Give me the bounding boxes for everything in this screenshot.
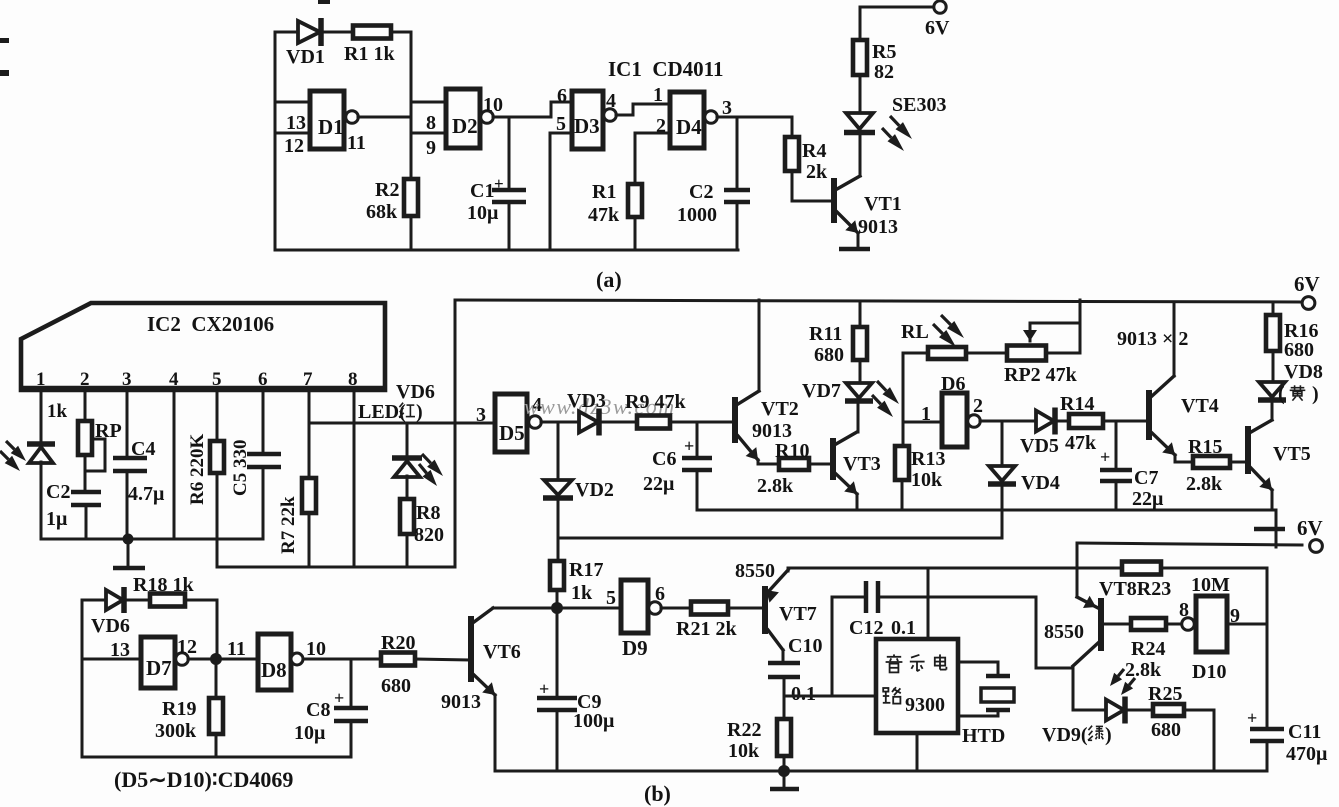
resistor R23 10M bbox=[1122, 562, 1161, 575]
capacitor C5 330 bbox=[247, 452, 281, 457]
svg-text:VD1: VD1 bbox=[286, 46, 325, 68]
svg-text:1: 1 bbox=[653, 84, 663, 106]
svg-text:300k: 300k bbox=[155, 720, 197, 742]
svg-text:R13: R13 bbox=[911, 448, 945, 470]
wire: R17 to node bbox=[557, 538, 560, 561]
svg-text:3: 3 bbox=[122, 369, 132, 390]
wire: D7 block left loop bbox=[81, 600, 84, 757]
resistor R19 300k bbox=[215, 665, 218, 698]
transistor VT7 8550 bbox=[762, 586, 768, 634]
svg-text:0.1: 0.1 bbox=[891, 617, 916, 639]
resistor R14 47k bbox=[1069, 414, 1103, 428]
svg-text:C5 330: C5 330 bbox=[230, 440, 251, 496]
wire: oscillator bottom rail bbox=[82, 756, 351, 759]
svg-text:(: ( bbox=[1278, 383, 1285, 405]
capacitor C2 1000 bbox=[736, 117, 739, 188]
wire: +6V rail2 under IC2 bbox=[217, 566, 455, 569]
wire: 6V line (VT8) bbox=[1077, 543, 1302, 545]
ground (bottom) bbox=[783, 771, 786, 788]
svg-text:IC2 CX20106: IC2 CX20106 bbox=[147, 312, 274, 336]
wire: emitter rail (section b) bbox=[697, 509, 1276, 512]
svg-text:5: 5 bbox=[212, 369, 222, 390]
svg-text:D5: D5 bbox=[499, 421, 525, 445]
svg-text:10k: 10k bbox=[911, 469, 943, 491]
svg-text:(a): (a) bbox=[596, 267, 622, 292]
diode VD6b bbox=[106, 590, 123, 610]
svg-text:820: 820 bbox=[414, 524, 444, 546]
resistor R2 68k bbox=[404, 179, 418, 216]
svg-text:1k: 1k bbox=[571, 582, 593, 604]
svg-text:47k: 47k bbox=[588, 204, 620, 226]
svg-text:10M: 10M bbox=[1191, 574, 1230, 596]
diode VD3 bbox=[579, 412, 598, 433]
wire: D3 pin5 feedback bbox=[550, 132, 572, 135]
power terminal 6V (section a) bbox=[859, 7, 862, 40]
gate D9 bbox=[563, 607, 621, 610]
power terminal 6V (right, emitter rail) bbox=[1275, 510, 1278, 547]
wire: C10 bottom node bbox=[784, 695, 876, 698]
svg-text:RL: RL bbox=[901, 321, 929, 343]
wire: C12 to VT8 collector bbox=[1035, 597, 1038, 668]
transistor VT2 9013 bbox=[732, 397, 738, 443]
capacitor C1 10u bbox=[508, 118, 511, 188]
svg-text:): ) bbox=[1105, 724, 1112, 746]
svg-text:C2: C2 bbox=[46, 481, 70, 503]
svg-text:680: 680 bbox=[1284, 339, 1314, 361]
svg-text:D9: D9 bbox=[622, 636, 648, 660]
piezo buzzer HTD bbox=[958, 661, 998, 664]
svg-text:9: 9 bbox=[426, 137, 436, 159]
svg-text:12: 12 bbox=[284, 135, 304, 157]
svg-text:R6 220K: R6 220K bbox=[187, 434, 208, 505]
svg-text:+: + bbox=[1100, 447, 1110, 467]
svg-text:): ) bbox=[1312, 383, 1319, 405]
transistor VT4 bbox=[1146, 390, 1152, 440]
svg-text:13: 13 bbox=[286, 112, 306, 134]
svg-text:RP: RP bbox=[95, 420, 122, 442]
svg-text:9013: 9013 bbox=[858, 216, 898, 238]
svg-text:VT1: VT1 bbox=[864, 193, 902, 215]
potentiometer RP bbox=[78, 421, 92, 455]
svg-text:R17: R17 bbox=[569, 559, 603, 581]
svg-text:+: + bbox=[334, 688, 344, 708]
wire: D1 output bbox=[358, 116, 411, 119]
capacitor C6 22u bbox=[696, 422, 699, 456]
transistor VT5 bbox=[1245, 426, 1251, 474]
svg-text:22μ: 22μ bbox=[643, 473, 675, 495]
resistor R18 1k bbox=[150, 594, 185, 607]
svg-text:5: 5 bbox=[606, 587, 616, 609]
svg-text:C6: C6 bbox=[652, 448, 676, 470]
svg-text:10μ: 10μ bbox=[294, 722, 326, 744]
svg-text:VT5: VT5 bbox=[1273, 443, 1311, 465]
resistor R20 680 bbox=[381, 653, 415, 666]
svg-text:R11: R11 bbox=[809, 323, 842, 345]
wire: music box bottom pin bbox=[916, 733, 919, 771]
capacitor C9 100u bbox=[556, 614, 559, 696]
svg-text:D3: D3 bbox=[574, 114, 600, 138]
svg-text:2k: 2k bbox=[806, 161, 828, 183]
LED VD8 (yellow) bbox=[1259, 382, 1285, 397]
potentiometer RP2 47k bbox=[966, 352, 1007, 355]
resistor R21 2k bbox=[661, 607, 691, 610]
svg-text:1μ: 1μ bbox=[46, 508, 68, 530]
svg-text:2.8k: 2.8k bbox=[757, 475, 794, 497]
resistor R6 220K bbox=[210, 441, 224, 473]
svg-text:D4: D4 bbox=[676, 115, 702, 139]
wire: D3 output to D4 bbox=[616, 114, 633, 117]
svg-text:C10: C10 bbox=[788, 635, 822, 657]
wire: pin7 branch to D5 bbox=[309, 422, 492, 425]
power terminal 6V (top right) bbox=[1302, 297, 1315, 310]
svg-text:10: 10 bbox=[483, 94, 503, 116]
gate D7 bbox=[82, 658, 141, 661]
svg-text:(b): (b) bbox=[644, 781, 671, 806]
wire: right vertical of D1 loop bbox=[410, 32, 413, 179]
resistor R7 22k bbox=[302, 478, 316, 513]
svg-text:R21 2k: R21 2k bbox=[676, 618, 737, 640]
svg-text:6: 6 bbox=[557, 85, 567, 107]
capacitor C12 0.1 bbox=[831, 597, 834, 696]
svg-text:VD7: VD7 bbox=[802, 380, 841, 402]
svg-text:R4: R4 bbox=[802, 140, 826, 162]
svg-text:8550: 8550 bbox=[1044, 621, 1084, 643]
wire: RL left vertical bbox=[903, 352, 928, 355]
LED SE303 bbox=[859, 134, 862, 176]
svg-text:8: 8 bbox=[1179, 599, 1189, 621]
svg-text:13: 13 bbox=[110, 639, 130, 661]
svg-text:R1: R1 bbox=[592, 181, 616, 203]
svg-text:R10: R10 bbox=[775, 440, 809, 462]
wire: VT2 collector bbox=[758, 300, 761, 391]
svg-text:6V: 6V bbox=[1297, 516, 1323, 540]
svg-text:1000: 1000 bbox=[677, 204, 717, 226]
node (R17/C9/D9 junction) bbox=[551, 602, 563, 614]
svg-text:+: + bbox=[539, 679, 549, 699]
svg-text:3: 3 bbox=[476, 404, 486, 426]
IC IC2 CX20106 bbox=[21, 303, 385, 390]
svg-text:C1: C1 bbox=[470, 180, 494, 202]
gate D8 bbox=[222, 658, 258, 661]
resistor R9 47k bbox=[637, 416, 670, 429]
svg-text:4.7μ: 4.7μ bbox=[128, 483, 165, 505]
svg-text:SE303: SE303 bbox=[892, 94, 946, 116]
wire: bottom rail of section a bbox=[275, 249, 738, 252]
wire: D2 output to D3 bbox=[493, 116, 551, 119]
gate D2 bbox=[411, 101, 446, 104]
svg-text:6V: 6V bbox=[925, 17, 950, 39]
svg-text:RP2 47k: RP2 47k bbox=[1004, 364, 1078, 386]
wire: IC2 pin3 bbox=[126, 390, 129, 456]
svg-text:VD8: VD8 bbox=[1284, 361, 1323, 383]
svg-text:R8: R8 bbox=[416, 502, 440, 524]
svg-text:R20: R20 bbox=[381, 632, 415, 654]
svg-text:9013 × 2: 9013 × 2 bbox=[1117, 328, 1188, 350]
svg-text:(D5∼D10)∶CD4069: (D5∼D10)∶CD4069 bbox=[114, 767, 293, 792]
photodiode (pin1 receiver) bbox=[27, 441, 55, 447]
wire: VT6 collector to node bbox=[493, 607, 551, 610]
svg-text:100μ: 100μ bbox=[573, 710, 615, 732]
wire: IC2 pin2 bbox=[84, 390, 87, 420]
resistor R15 2.8k bbox=[1193, 456, 1230, 468]
wire: D8 output bbox=[303, 658, 381, 661]
svg-text:VT4: VT4 bbox=[1181, 395, 1219, 417]
svg-text:9300: 9300 bbox=[905, 694, 945, 716]
gate D10 bbox=[1182, 618, 1195, 631]
resistor R22 10k bbox=[783, 696, 786, 719]
svg-text:VD2: VD2 bbox=[575, 479, 614, 501]
svg-text:VD6: VD6 bbox=[91, 615, 130, 637]
svg-text:R2: R2 bbox=[375, 179, 399, 201]
diode VD1 bbox=[298, 21, 320, 43]
svg-text:10μ: 10μ bbox=[467, 202, 499, 224]
capacitor C10 0.1 bbox=[768, 661, 800, 666]
wire: D4 output bbox=[717, 116, 792, 119]
svg-text:+: + bbox=[494, 174, 504, 193]
resistor R16 680 bbox=[1272, 303, 1275, 315]
resistor R1 47k bbox=[628, 184, 642, 217]
capacitor C2 1u (pin2) bbox=[71, 490, 101, 495]
wire: IC2 pin8 bbox=[353, 390, 356, 567]
wire: IC2 pin4 bbox=[173, 390, 176, 539]
LED VD7 bbox=[846, 383, 872, 398]
IC music circuit 9300 bbox=[876, 639, 958, 733]
svg-text:VD3: VD3 bbox=[567, 390, 606, 412]
svg-text:C7: C7 bbox=[1134, 467, 1158, 489]
transistor VT1 9013 bbox=[831, 178, 837, 223]
svg-text:HTD: HTD bbox=[962, 725, 1005, 747]
svg-text:680: 680 bbox=[814, 344, 844, 366]
wire: ground rail under IC2 bbox=[41, 538, 263, 541]
svg-text:11: 11 bbox=[227, 638, 246, 660]
svg-text:D6: D6 bbox=[941, 373, 965, 395]
resistor R5 82 bbox=[853, 40, 867, 75]
svg-text:VD5: VD5 bbox=[1020, 435, 1059, 457]
svg-text:C8: C8 bbox=[306, 699, 330, 721]
ground (VT1 emitter) bbox=[839, 247, 870, 252]
resistor R11 680 bbox=[859, 302, 862, 327]
wire: section-b +6V top rail bbox=[455, 300, 1302, 302]
svg-text:VD4: VD4 bbox=[1021, 472, 1060, 494]
svg-text:R22: R22 bbox=[727, 719, 761, 741]
svg-text:R9 47k: R9 47k bbox=[625, 391, 686, 413]
svg-text:): ) bbox=[416, 401, 423, 423]
wire: section-b left vertical bbox=[454, 300, 457, 567]
node (pin3 ground junction) bbox=[123, 534, 134, 545]
wire: D4 pin2 to R1b bbox=[635, 132, 670, 135]
resistor R1 1k (top) bbox=[353, 26, 391, 39]
resistor R13 10k bbox=[895, 446, 909, 480]
svg-text:VT3: VT3 bbox=[843, 453, 881, 475]
resistor R24 2.8k bbox=[1104, 623, 1131, 626]
diode VD4 bbox=[1001, 421, 1004, 464]
transistor VT6 9013 bbox=[468, 616, 474, 682]
svg-text:+: + bbox=[684, 436, 694, 456]
svg-text:R5: R5 bbox=[872, 41, 896, 63]
svg-text:4: 4 bbox=[169, 369, 179, 390]
wire: D10 right vertical bbox=[1266, 568, 1269, 727]
svg-text:R7 22k: R7 22k bbox=[278, 496, 299, 554]
ground (IC2) bbox=[127, 539, 130, 567]
svg-text:82: 82 bbox=[874, 61, 894, 83]
svg-text:8550: 8550 bbox=[735, 560, 775, 582]
svg-text:C12: C12 bbox=[849, 617, 883, 639]
svg-text:D8: D8 bbox=[261, 658, 287, 682]
svg-text:10: 10 bbox=[306, 638, 326, 660]
svg-text:680: 680 bbox=[1151, 719, 1181, 741]
svg-text:680: 680 bbox=[381, 675, 411, 697]
svg-text:LED(: LED( bbox=[358, 401, 406, 423]
gate D5 bbox=[455, 422, 495, 425]
svg-text:D2: D2 bbox=[452, 114, 478, 138]
power terminal 6V (lower right) bbox=[1310, 540, 1323, 553]
wire: VD2 bottom rail to emitter rail bbox=[558, 537, 1002, 540]
svg-text:2: 2 bbox=[973, 395, 983, 417]
svg-text:D7: D7 bbox=[146, 656, 172, 680]
resistor R4 2k bbox=[791, 117, 794, 137]
wire: IC2 pin7 bbox=[308, 390, 311, 478]
gate D3 bbox=[572, 91, 603, 149]
transistor VT3 bbox=[830, 438, 836, 480]
diode VD2 bbox=[557, 422, 560, 478]
svg-text:D1: D1 bbox=[318, 115, 344, 139]
svg-text:VT2: VT2 bbox=[761, 398, 799, 420]
wire: section-a left loop and top wire bbox=[275, 31, 298, 34]
transistor VT8 8550 bbox=[1098, 598, 1104, 651]
wire: IC2 pin5 bbox=[216, 390, 219, 441]
svg-text:D10: D10 bbox=[1192, 661, 1226, 683]
svg-text:8: 8 bbox=[426, 112, 436, 134]
svg-text:R25: R25 bbox=[1148, 683, 1182, 705]
svg-text:4: 4 bbox=[606, 90, 616, 112]
svg-text:VT7: VT7 bbox=[779, 603, 817, 625]
scan marks bbox=[0, 38, 9, 43]
LED VD9 (green) bbox=[1072, 668, 1075, 710]
svg-text:VD6: VD6 bbox=[396, 381, 435, 403]
svg-text:2: 2 bbox=[80, 369, 90, 390]
node (pin11) bbox=[188, 658, 210, 661]
svg-text:9013: 9013 bbox=[752, 420, 792, 442]
wire: VT7 emitter line bbox=[787, 568, 790, 571]
svg-text:2.8k: 2.8k bbox=[1125, 659, 1162, 681]
svg-text:+: + bbox=[1247, 708, 1257, 728]
resistor R10 2.8k bbox=[779, 458, 809, 470]
svg-text:1: 1 bbox=[921, 403, 931, 425]
svg-text:C4: C4 bbox=[131, 438, 155, 460]
capacitor C4 4.7u bbox=[113, 456, 147, 461]
wire: D5 output bbox=[541, 421, 579, 424]
capacitor C11 470u bbox=[1250, 727, 1284, 732]
svg-text:R19: R19 bbox=[162, 698, 196, 720]
svg-text:22μ: 22μ bbox=[1132, 488, 1164, 510]
svg-text:0.1: 0.1 bbox=[791, 683, 816, 705]
svg-text:6: 6 bbox=[258, 369, 268, 390]
svg-text:R18 1k: R18 1k bbox=[133, 574, 194, 596]
capacitor C8 10u bbox=[350, 659, 353, 706]
svg-text:470μ: 470μ bbox=[1286, 743, 1328, 765]
resistor R17 1k bbox=[550, 561, 564, 590]
svg-text:1k: 1k bbox=[47, 401, 68, 422]
svg-text:1: 1 bbox=[36, 369, 46, 390]
svg-text:C2: C2 bbox=[689, 181, 713, 203]
svg-text:6: 6 bbox=[655, 583, 665, 605]
gate D1 bbox=[275, 101, 310, 104]
gate D4 bbox=[670, 92, 704, 148]
wire: D6 output bbox=[980, 420, 1036, 423]
wire: IC2 pin6 bbox=[262, 390, 265, 452]
svg-text:7: 7 bbox=[303, 369, 313, 390]
svg-text:9013: 9013 bbox=[441, 691, 481, 713]
svg-text:IC1 CD4011: IC1 CD4011 bbox=[608, 57, 724, 81]
wire: VT8 emitter to 6V line bbox=[1076, 543, 1079, 597]
svg-text:6V: 6V bbox=[1294, 272, 1320, 296]
wire: VT4 collector bbox=[1173, 302, 1176, 376]
resistor R25 680 bbox=[1153, 704, 1184, 716]
wire: bottom rail bbox=[495, 770, 1267, 773]
svg-text:12: 12 bbox=[177, 636, 197, 658]
svg-text:2.8k: 2.8k bbox=[1186, 473, 1223, 495]
wire: IC2 pin1 bbox=[40, 390, 43, 442]
svg-text:R14: R14 bbox=[1060, 393, 1094, 415]
diode VD5 bbox=[1036, 411, 1054, 432]
svg-text:VT6: VT6 bbox=[483, 641, 521, 663]
svg-text:47k: 47k bbox=[1065, 432, 1097, 454]
svg-text:VT8R23: VT8R23 bbox=[1099, 578, 1171, 600]
svg-text:68k: 68k bbox=[366, 201, 398, 223]
svg-text:R15: R15 bbox=[1188, 436, 1222, 458]
resistor R8 820 bbox=[400, 499, 414, 534]
gate D6 bbox=[903, 421, 942, 424]
node (R22 ground) bbox=[778, 765, 790, 777]
svg-text:11: 11 bbox=[347, 132, 366, 154]
svg-text:VD9(: VD9( bbox=[1042, 724, 1088, 746]
svg-text:10k: 10k bbox=[728, 740, 760, 762]
svg-text:R24: R24 bbox=[1131, 638, 1165, 660]
svg-text:R1 1k: R1 1k bbox=[344, 43, 395, 65]
photoresistor RL bbox=[928, 347, 966, 359]
svg-text:8: 8 bbox=[348, 369, 358, 390]
wire: music box top pin bbox=[927, 568, 930, 638]
capacitor C7 22u bbox=[1115, 421, 1118, 468]
svg-text:C11: C11 bbox=[1288, 721, 1321, 743]
